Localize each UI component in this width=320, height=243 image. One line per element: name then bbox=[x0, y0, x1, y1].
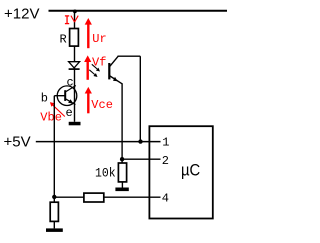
resistor 10k bbox=[118, 163, 126, 182]
Vce arrow bbox=[85, 87, 92, 113]
ground (emitter) bbox=[69, 122, 81, 126]
pin 2 wire bbox=[122, 158, 160, 160]
LED D1 (optocoupler diode) bbox=[69, 62, 80, 69]
Ur arrow bbox=[85, 18, 92, 48]
svg-text:+5V: +5V bbox=[4, 133, 31, 150]
base wire down bbox=[53, 96, 55, 198]
svg-text:Vf: Vf bbox=[92, 56, 106, 70]
base lead wire bbox=[54, 95, 65, 97]
wire 10k to ground bbox=[121, 182, 123, 188]
microcontroller U1 box bbox=[149, 126, 212, 218]
svg-text:R: R bbox=[60, 33, 67, 47]
svg-text:c: c bbox=[67, 76, 74, 90]
ground (10k) bbox=[115, 188, 128, 192]
+12V rail bbox=[49, 10, 228, 12]
ground (R3) bbox=[46, 228, 63, 232]
+5V rail / pin 1 line bbox=[36, 141, 161, 143]
node junction on +12V rail bbox=[73, 10, 77, 14]
svg-text:2: 2 bbox=[162, 154, 169, 168]
node junction collector/+5V bbox=[138, 139, 142, 143]
svg-text:Ur: Ur bbox=[92, 32, 106, 46]
wire base node to resistor R3 bbox=[53, 197, 55, 202]
svg-text:4: 4 bbox=[162, 191, 169, 205]
pin 4 wire left segment bbox=[54, 196, 84, 198]
svg-text:b: b bbox=[41, 91, 48, 105]
svg-text:1: 1 bbox=[162, 136, 169, 150]
svg-text:+12V: +12V bbox=[4, 6, 39, 23]
current arrow head on wire bbox=[71, 16, 78, 23]
svg-text:Vce: Vce bbox=[91, 98, 113, 112]
phototransistor collector wire bbox=[118, 56, 141, 141]
svg-text:10k: 10k bbox=[95, 165, 116, 180]
optocoupler light arrows bbox=[89, 64, 100, 77]
node junction base/pin4 bbox=[52, 195, 56, 199]
wire R3 to ground bbox=[53, 221, 55, 228]
resistor R3 (vertical, bottom-left) bbox=[50, 202, 58, 221]
resistor R2 (horizontal) bbox=[84, 193, 104, 202]
pin 4 wire right segment bbox=[104, 196, 161, 198]
wire from +12V rail through R, LED, T1 to ground bbox=[74, 11, 76, 122]
phototransistor emitter wire bbox=[121, 83, 123, 163]
Vf arrow bbox=[84, 55, 91, 79]
transistor T1 bbox=[57, 86, 77, 106]
Vbe arrow bbox=[50, 102, 65, 116]
current I label bbox=[65, 16, 69, 24]
svg-text:Vbe: Vbe bbox=[40, 111, 62, 125]
node junction emitter/pin2 bbox=[120, 157, 124, 161]
svg-text:e: e bbox=[66, 106, 73, 120]
phototransistor PT1 bbox=[109, 56, 122, 83]
svg-text:µC: µC bbox=[181, 160, 200, 179]
resistor R bbox=[70, 29, 79, 47]
